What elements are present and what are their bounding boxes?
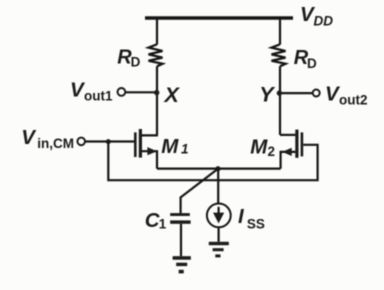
svg-text:Y: Y — [259, 82, 275, 106]
svg-text:D: D — [307, 56, 317, 71]
svg-text:2: 2 — [268, 144, 276, 159]
svg-text:out2: out2 — [339, 92, 368, 107]
svg-text:in,CM: in,CM — [37, 136, 74, 151]
svg-text:SS: SS — [247, 216, 265, 231]
svg-text:M: M — [250, 136, 268, 159]
svg-text:out1: out1 — [84, 89, 113, 104]
svg-text:X: X — [164, 83, 181, 107]
svg-text:V: V — [21, 126, 37, 149]
svg-text:1: 1 — [181, 142, 189, 157]
svg-text:I: I — [238, 205, 245, 228]
svg-text:D: D — [131, 55, 141, 70]
svg-text:1: 1 — [159, 217, 167, 232]
svg-text:M: M — [161, 135, 179, 158]
svg-text:DD: DD — [314, 14, 334, 29]
